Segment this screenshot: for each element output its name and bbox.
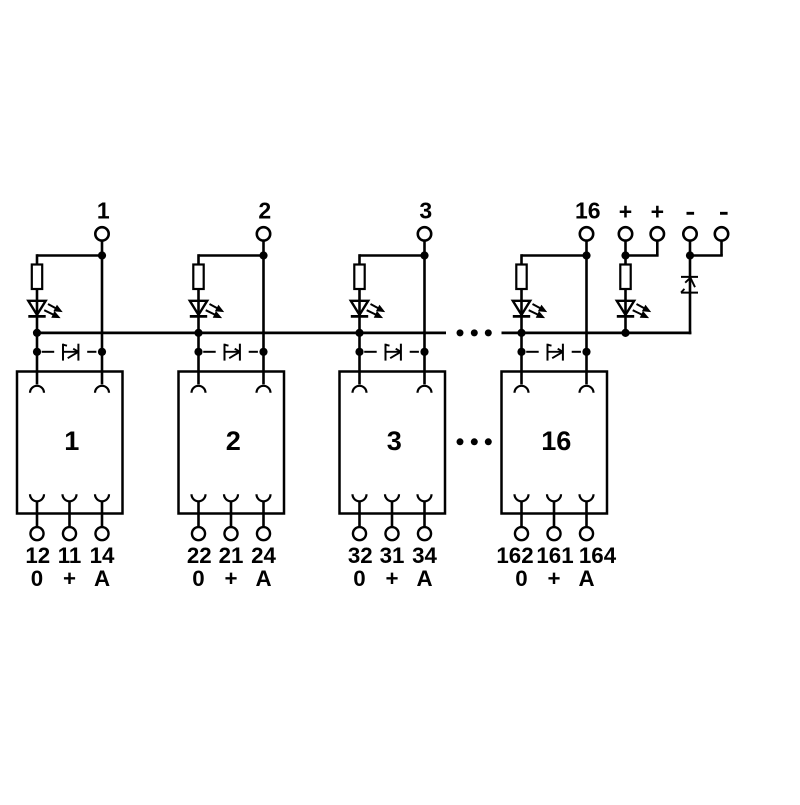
pin label 24 bbox=[251, 543, 276, 568]
wire: contact 161 stem to terminal bbox=[553, 501, 556, 527]
terminal 16 (top socket circle) bbox=[580, 227, 593, 240]
resistor (power LED series) bbox=[620, 265, 630, 290]
pin label 22 bbox=[187, 543, 212, 568]
plug contact bottom-middle (channel 3) bbox=[385, 494, 399, 501]
plug contact bottom-right (channel 16) bbox=[580, 494, 594, 501]
pin label 162 bbox=[496, 543, 533, 568]
node: free-wheeling diode tap left (channel 1) bbox=[33, 348, 41, 356]
terminal + (second, circle) bbox=[651, 227, 664, 240]
wire: bus to coil input A1 (channel 2) bbox=[197, 333, 200, 385]
svg-text:22: 22 bbox=[187, 543, 212, 568]
node: channel 3 input junction bbox=[420, 251, 428, 259]
relay module 16 (plug-in relay box) bbox=[502, 372, 608, 514]
pin label 164 bbox=[579, 543, 617, 568]
function label A (channel 16) bbox=[578, 566, 594, 591]
wire: LED cathode bus (channel 16 to minus rail) bbox=[502, 331, 692, 334]
svg-text:3: 3 bbox=[419, 198, 432, 224]
terminal 1 (top socket circle) bbox=[95, 227, 108, 240]
svg-text:1: 1 bbox=[64, 425, 79, 456]
plug contact bottom-left (channel 1) bbox=[30, 494, 44, 501]
wire: coil line from junction down (channel 1) bbox=[101, 256, 104, 385]
svg-text:161: 161 bbox=[536, 543, 573, 568]
svg-text:32: 32 bbox=[348, 543, 373, 568]
terminal label - (second) bbox=[720, 212, 728, 215]
wire: contact 12 stem to terminal bbox=[36, 501, 39, 527]
node: LED bus junction (channel 16) bbox=[517, 329, 525, 337]
node: power LED bus junction bbox=[621, 329, 629, 337]
wire: LED cathode bus (channels 1-3) bbox=[37, 331, 446, 334]
function label + (channel 1) bbox=[63, 566, 76, 591]
plug contact bottom-right (channel 1) bbox=[95, 494, 109, 501]
node: free-wheeling diode tap right (channel 2) bbox=[259, 348, 267, 356]
module number label 16 bbox=[541, 425, 571, 456]
svg-text:16: 16 bbox=[575, 198, 601, 224]
terminal + (first, circle) bbox=[619, 227, 632, 240]
svg-text:+: + bbox=[385, 566, 398, 591]
pin label 34 bbox=[412, 543, 437, 568]
function label 0 (channel 3) bbox=[353, 566, 365, 591]
LED indicator (power) bbox=[617, 301, 651, 318]
function label A (channel 3) bbox=[416, 566, 432, 591]
node: free-wheeling diode tap right (channel 16) bbox=[582, 348, 590, 356]
wire: coil line from junction down (channel 3) bbox=[423, 256, 426, 385]
terminal label 3 bbox=[419, 198, 432, 224]
terminal 164 (bottom socket circle) bbox=[580, 527, 593, 540]
terminal 12 (bottom socket circle) bbox=[30, 527, 43, 540]
plug contact bottom-right (channel 2) bbox=[257, 494, 271, 501]
svg-text:2: 2 bbox=[258, 198, 271, 224]
wire: terminal 3 to node bbox=[423, 241, 426, 256]
function label + (channel 3) bbox=[385, 566, 398, 591]
svg-text:A: A bbox=[416, 566, 432, 591]
pin label 32 bbox=[348, 543, 373, 568]
plug contact top-left (channel 16) bbox=[515, 386, 529, 393]
pin label 12 bbox=[25, 543, 50, 568]
svg-text:34: 34 bbox=[412, 543, 437, 568]
free-wheeling suppressor diode link (channel 2) bbox=[203, 344, 258, 361]
wire: resistor through LED to bus (channel 2) bbox=[197, 289, 200, 333]
wire: coil line from junction down (channel 16) bbox=[585, 256, 588, 385]
wire: contact 24 stem to terminal bbox=[262, 501, 265, 527]
terminal 3 (top socket circle) bbox=[418, 227, 431, 240]
terminal label + (second) bbox=[651, 199, 664, 225]
pin label 14 bbox=[90, 543, 115, 568]
terminal 11 (bottom socket circle) bbox=[63, 527, 76, 540]
wire: plus junction to resistor bbox=[624, 256, 627, 265]
svg-text:12: 12 bbox=[25, 543, 50, 568]
plug contact top-right (channel 2) bbox=[257, 386, 271, 393]
node: free-wheeling diode tap right (channel 1) bbox=[98, 348, 106, 356]
resistor (LED series, channel 3) bbox=[354, 265, 364, 290]
wire: contact 162 stem to terminal bbox=[520, 501, 523, 527]
svg-text:162: 162 bbox=[496, 543, 533, 568]
plug contact bottom-left (channel 3) bbox=[353, 494, 367, 501]
terminal label 1 bbox=[97, 198, 110, 224]
resistor (LED series, channel 16) bbox=[516, 265, 526, 290]
function label 0 (channel 1) bbox=[31, 566, 43, 591]
plug contact bottom-left (channel 2) bbox=[192, 494, 206, 501]
svg-text:21: 21 bbox=[219, 543, 244, 568]
wire: minus junction down to bus corner bbox=[689, 256, 692, 335]
wire: contact 21 stem to terminal bbox=[230, 501, 233, 527]
wire: first + terminal down bbox=[624, 241, 627, 256]
wire: contact 34 stem to terminal bbox=[423, 501, 426, 527]
node: free-wheeling diode tap right (channel 3) bbox=[420, 348, 428, 356]
node: plus rail junction bbox=[621, 251, 629, 259]
wire: terminal 16 to node bbox=[585, 241, 588, 256]
svg-text:0: 0 bbox=[31, 566, 43, 591]
relay module 1 (plug-in relay box) bbox=[17, 372, 123, 514]
svg-text:16: 16 bbox=[541, 425, 571, 456]
svg-text:2: 2 bbox=[226, 425, 241, 456]
wire: coil line from junction down (channel 2) bbox=[262, 256, 265, 385]
protection diode (reverse polarity, minus rail) bbox=[681, 277, 698, 293]
module number label 2 bbox=[226, 425, 241, 456]
plug contact top-right (channel 1) bbox=[95, 386, 109, 393]
svg-text:3: 3 bbox=[387, 425, 402, 456]
function label + (channel 16) bbox=[547, 566, 560, 591]
free-wheeling suppressor diode link (channel 16) bbox=[526, 344, 581, 361]
wire: second - terminal L-link bbox=[690, 241, 723, 256]
plug contact bottom-middle (channel 16) bbox=[547, 494, 561, 501]
wire: resistor through LED to bus (channel 16) bbox=[520, 289, 523, 333]
terminal 21 (bottom socket circle) bbox=[224, 527, 237, 540]
wire: contact 11 stem to terminal bbox=[68, 501, 71, 527]
function label A (channel 1) bbox=[94, 566, 110, 591]
svg-text:1: 1 bbox=[97, 198, 110, 224]
svg-text:164: 164 bbox=[579, 543, 617, 568]
wire: junction to resistor branch (channel 3) bbox=[360, 254, 425, 264]
wire: junction to resistor branch (channel 16) bbox=[522, 254, 587, 264]
ellipsis dots on bus (continuation) bbox=[457, 329, 492, 336]
svg-text:0: 0 bbox=[515, 566, 527, 591]
plug contact top-left (channel 3) bbox=[353, 386, 367, 393]
svg-text:A: A bbox=[94, 566, 110, 591]
module number label 1 bbox=[64, 425, 79, 456]
wire: bus to coil input A1 (channel 3) bbox=[358, 333, 361, 385]
svg-text:A: A bbox=[578, 566, 594, 591]
plug contact top-left (channel 1) bbox=[30, 386, 44, 393]
free-wheeling suppressor diode link (channel 1) bbox=[42, 344, 97, 361]
node: LED bus junction (channel 1) bbox=[33, 329, 41, 337]
pin label 21 bbox=[219, 543, 244, 568]
pin label 31 bbox=[380, 543, 405, 568]
svg-text:31: 31 bbox=[380, 543, 405, 568]
terminal label 2 bbox=[258, 198, 271, 224]
wire: junction to resistor branch (channel 2) bbox=[199, 254, 264, 264]
node: channel 1 input junction bbox=[98, 251, 106, 259]
wire: contact 31 stem to terminal bbox=[391, 501, 394, 527]
node: free-wheeling diode tap left (channel 2) bbox=[194, 348, 202, 356]
svg-text:+: + bbox=[547, 566, 560, 591]
wire: resistor through LED to bus (channel 3) bbox=[358, 289, 361, 333]
relay module 3 (plug-in relay box) bbox=[340, 372, 446, 514]
node: LED bus junction (channel 2) bbox=[194, 329, 202, 337]
terminal 24 (bottom socket circle) bbox=[257, 527, 270, 540]
function label 0 (channel 2) bbox=[192, 566, 204, 591]
plug contact top-right (channel 16) bbox=[580, 386, 594, 393]
wire: contact 164 stem to terminal bbox=[585, 501, 588, 527]
wire: contact 32 stem to terminal bbox=[358, 501, 361, 527]
terminal label - (first) bbox=[687, 212, 695, 215]
pin label 161 bbox=[536, 543, 573, 568]
function label + (channel 2) bbox=[224, 566, 237, 591]
wire: terminal 2 to node bbox=[262, 241, 265, 256]
terminal - (first, circle) bbox=[683, 227, 696, 240]
LED indicator (channel 1) bbox=[28, 301, 62, 318]
pin label 11 bbox=[58, 543, 82, 568]
ellipsis dots between modules (continuation) bbox=[457, 438, 492, 445]
terminal 162 (bottom socket circle) bbox=[515, 527, 528, 540]
free-wheeling suppressor diode link (channel 3) bbox=[364, 344, 419, 361]
svg-text:+: + bbox=[224, 566, 237, 591]
node: channel 16 input junction bbox=[582, 251, 590, 259]
plug contact top-right (channel 3) bbox=[418, 386, 432, 393]
svg-text:+: + bbox=[619, 199, 632, 225]
plug contact bottom-right (channel 3) bbox=[418, 494, 432, 501]
terminal - (second, circle) bbox=[715, 227, 728, 240]
svg-text:14: 14 bbox=[90, 543, 115, 568]
svg-text:A: A bbox=[255, 566, 271, 591]
terminal label + (first) bbox=[619, 199, 632, 225]
node: minus rail junction bbox=[686, 251, 694, 259]
terminal label 16 bbox=[575, 198, 601, 224]
wire: second + terminal L-link bbox=[626, 241, 659, 256]
node: free-wheeling diode tap left (channel 16) bbox=[517, 348, 525, 356]
plug contact bottom-left (channel 16) bbox=[515, 494, 529, 501]
svg-text:+: + bbox=[651, 199, 664, 225]
function label 0 (channel 16) bbox=[515, 566, 527, 591]
plug contact top-left (channel 2) bbox=[192, 386, 206, 393]
node: free-wheeling diode tap left (channel 3) bbox=[355, 348, 363, 356]
module number label 3 bbox=[387, 425, 402, 456]
node: LED bus junction (channel 3) bbox=[355, 329, 363, 337]
relay module 2 (plug-in relay box) bbox=[179, 372, 285, 514]
wire: contact 14 stem to terminal bbox=[101, 501, 104, 527]
svg-text:0: 0 bbox=[353, 566, 365, 591]
LED indicator (channel 2) bbox=[190, 301, 224, 318]
LED indicator (channel 16) bbox=[513, 301, 547, 318]
resistor (LED series, channel 2) bbox=[193, 265, 203, 290]
wire: contact 22 stem to terminal bbox=[197, 501, 200, 527]
wire: bus to coil input A1 (channel 1) bbox=[36, 333, 39, 385]
svg-text:24: 24 bbox=[251, 543, 276, 568]
node: channel 2 input junction bbox=[259, 251, 267, 259]
wire: resistor through LED to bus (channel 1) bbox=[36, 289, 39, 333]
svg-text:0: 0 bbox=[192, 566, 204, 591]
wire: junction to resistor branch (channel 1) bbox=[37, 254, 102, 264]
terminal 31 (bottom socket circle) bbox=[385, 527, 398, 540]
terminal 14 (bottom socket circle) bbox=[95, 527, 108, 540]
terminal 22 (bottom socket circle) bbox=[192, 527, 205, 540]
resistor (LED series, channel 1) bbox=[32, 265, 42, 290]
terminal 34 (bottom socket circle) bbox=[418, 527, 431, 540]
terminal 2 (top socket circle) bbox=[257, 227, 270, 240]
svg-text:11: 11 bbox=[58, 543, 82, 568]
wire: terminal 1 to node bbox=[101, 241, 104, 256]
plug contact bottom-middle (channel 1) bbox=[63, 494, 77, 501]
terminal 161 (bottom socket circle) bbox=[547, 527, 560, 540]
function label A (channel 2) bbox=[255, 566, 271, 591]
svg-text:+: + bbox=[63, 566, 76, 591]
LED indicator (channel 3) bbox=[351, 301, 385, 318]
wire: bus to coil input A1 (channel 16) bbox=[520, 333, 523, 385]
plug contact bottom-middle (channel 2) bbox=[224, 494, 238, 501]
wire: resistor through power LED to bus bbox=[624, 289, 627, 333]
wire: first - terminal down bbox=[689, 241, 692, 256]
terminal 32 (bottom socket circle) bbox=[353, 527, 366, 540]
